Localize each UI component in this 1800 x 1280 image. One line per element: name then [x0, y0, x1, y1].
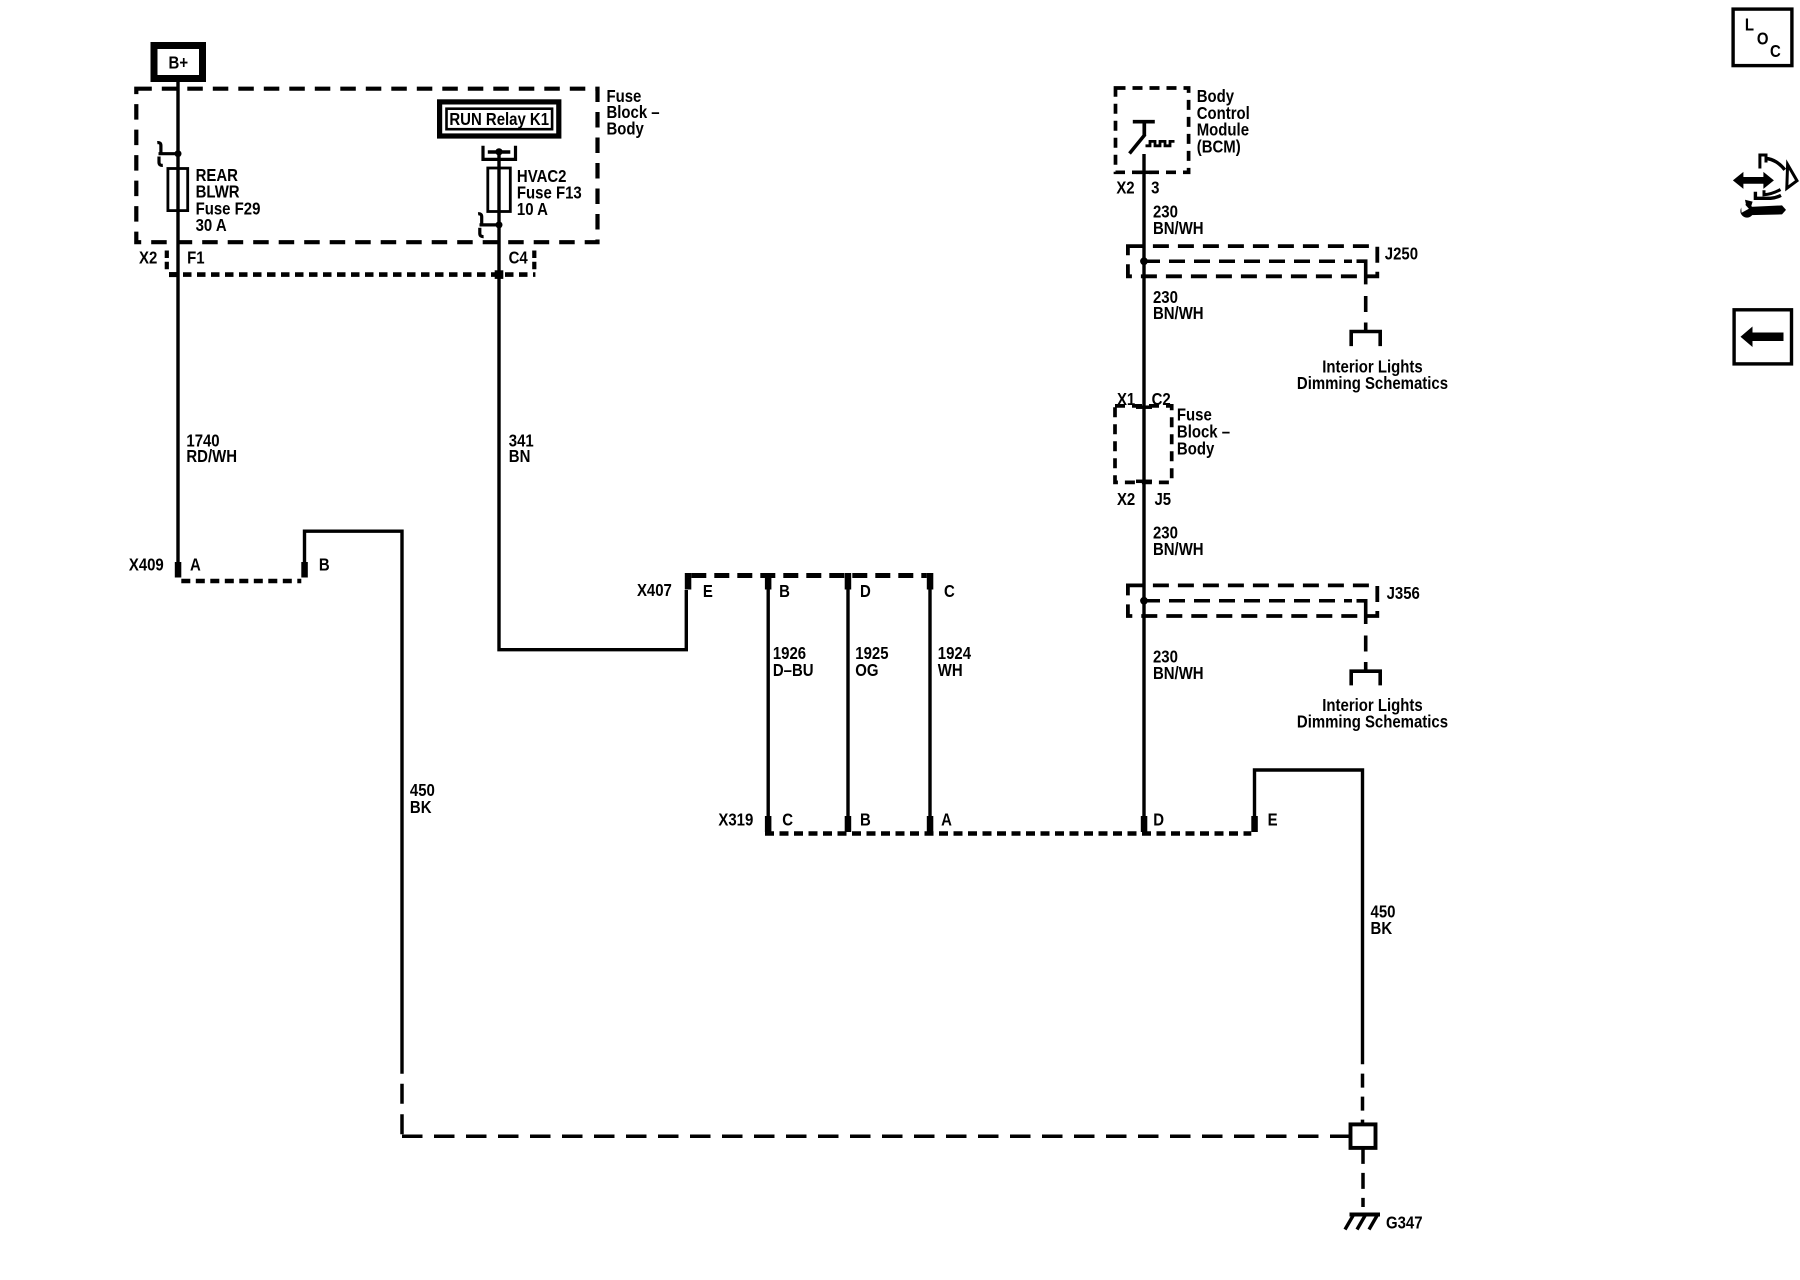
fuse block body small label	[1177, 405, 1230, 458]
junction square at C4 crossing	[495, 270, 504, 279]
svg-text:J356: J356	[1387, 584, 1420, 603]
X319 connector row	[718, 810, 1277, 833]
svg-text:D: D	[1153, 811, 1164, 830]
wire 341 BN relay to X407 E	[499, 152, 686, 650]
svg-text:B: B	[779, 582, 790, 601]
tick at small box top	[1136, 405, 1152, 409]
fork to interior lights (2)	[1351, 671, 1380, 685]
wire label 230 BN/WH (2)	[1153, 288, 1204, 323]
wire 1924 WH	[928, 590, 931, 817]
J250 junction dot	[1140, 257, 1148, 265]
connector C4 dotted line	[169, 272, 535, 277]
svg-text:J250: J250	[1385, 244, 1418, 263]
Body Control Module dashed box	[1116, 88, 1189, 172]
svg-text:BN/WH: BN/WH	[1153, 219, 1204, 238]
wire label 341 BN	[509, 431, 534, 466]
svg-text:X319: X319	[718, 810, 753, 829]
relay contact symbol	[483, 146, 516, 160]
X1 C2 labels	[1117, 390, 1171, 409]
LOC nav box	[1733, 9, 1792, 66]
tick at small box bottom	[1136, 480, 1152, 484]
J250 inner dashed branch	[1144, 261, 1366, 330]
svg-text:C4: C4	[509, 248, 529, 267]
X2 J5 labels	[1117, 490, 1171, 509]
wire label 1740 RD/WH	[186, 431, 237, 466]
svg-text:A: A	[190, 555, 201, 574]
wire label 450 BK right	[1371, 902, 1396, 938]
svg-text:BN/WH: BN/WH	[1153, 540, 1204, 559]
fuse F13 symbol	[488, 168, 511, 212]
svg-text:C: C	[1770, 42, 1781, 61]
dashed continuation into ground splice box	[1361, 1074, 1365, 1125]
fuse F29 symbol	[168, 169, 188, 211]
wire label 1925 OG	[855, 644, 888, 681]
wire 450 BK right: X319 E up over and down	[1255, 770, 1363, 1064]
svg-text:A: A	[941, 811, 952, 830]
B+ power terminal box	[154, 46, 203, 79]
fork to interior lights (1)	[1351, 332, 1380, 347]
svg-text:D: D	[860, 582, 871, 601]
tick at F1 crossing	[169, 272, 178, 277]
svg-text:30 A: 30 A	[196, 216, 227, 235]
svg-text:X2: X2	[1116, 178, 1134, 197]
svg-text:B: B	[860, 811, 871, 830]
J356 inner dashed branch	[1144, 601, 1366, 670]
ground splice open box	[1351, 1124, 1376, 1148]
X409 connector: A and B terminals with dotted jumper	[129, 555, 330, 581]
svg-text:B: B	[319, 555, 330, 574]
wire label 230 BN/WH (4)	[1153, 647, 1204, 683]
J356 junction dot	[1140, 597, 1148, 605]
svg-text:10 A: 10 A	[517, 200, 548, 219]
svg-text:RD/WH: RD/WH	[186, 447, 237, 466]
X2 F1 labels with separator	[139, 248, 204, 270]
svg-text:BK: BK	[1371, 919, 1393, 938]
svg-text:BN/WH: BN/WH	[1153, 304, 1204, 323]
tick at BCM box bottom	[1136, 171, 1152, 175]
fuse block body dashed box	[136, 89, 597, 243]
wire B+ to X409 A (1740 RD/WH)	[176, 82, 179, 563]
svg-text:X407: X407	[637, 581, 672, 600]
schematic navigation icon (arrows and wrench)	[1733, 155, 1797, 218]
svg-text:Body: Body	[1177, 439, 1215, 458]
svg-text:X2: X2	[139, 248, 157, 267]
svg-text:C: C	[782, 811, 793, 830]
svg-text:WH: WH	[938, 661, 963, 680]
RUN Relay K1 box	[440, 102, 559, 136]
wire 230 BN/WH from BCM to X319 D	[1142, 154, 1145, 816]
svg-text:OG: OG	[855, 661, 878, 680]
svg-text:RUN Relay K1: RUN Relay K1	[449, 110, 549, 129]
wire 450 BK left: X409 B up over and down	[305, 531, 403, 1074]
clip symbol below fuse F13	[478, 214, 502, 237]
interior lights dimming label (2)	[1297, 696, 1448, 732]
ground symbol G347	[1345, 1214, 1380, 1230]
svg-text:O: O	[1757, 30, 1769, 49]
svg-text:BN/WH: BN/WH	[1153, 664, 1204, 683]
wire label 230 BN/WH (3)	[1153, 524, 1204, 560]
wire label 1924 WH	[938, 644, 972, 681]
svg-text:Dimming Schematics: Dimming Schematics	[1297, 713, 1448, 732]
svg-text:X409: X409	[129, 555, 164, 574]
svg-text:L: L	[1745, 15, 1754, 34]
svg-text:J5: J5	[1154, 490, 1171, 509]
svg-text:X2: X2	[1117, 490, 1135, 509]
svg-text:C: C	[944, 582, 955, 601]
C4 label with separator	[509, 248, 535, 272]
X2 3 labels	[1116, 178, 1159, 197]
svg-text:(BCM): (BCM)	[1197, 137, 1241, 156]
back navigation box with left arrow	[1734, 310, 1791, 364]
svg-text:3: 3	[1151, 178, 1159, 197]
dashed stem to ground	[1361, 1148, 1365, 1207]
fuse F13 label	[517, 167, 582, 220]
splice J250 dashed box	[1128, 246, 1377, 276]
svg-text:B+: B+	[169, 53, 189, 72]
wire label 1926 D-BU	[773, 644, 814, 681]
clip symbol at fuse F29	[157, 143, 181, 166]
X407 connector row	[637, 573, 955, 601]
splice J356 dashed box	[1128, 585, 1377, 616]
wire label 450 BK left	[410, 781, 435, 817]
BCM driver symbol	[1130, 122, 1175, 154]
wire label 230 BN/WH (1)	[1153, 202, 1204, 238]
interior lights dimming label (1)	[1297, 358, 1448, 394]
svg-text:G347: G347	[1386, 1213, 1423, 1232]
svg-text:BK: BK	[410, 798, 432, 817]
svg-text:Body: Body	[606, 119, 644, 138]
svg-text:E: E	[703, 582, 713, 601]
svg-text:BN: BN	[509, 447, 531, 466]
svg-text:Dimming Schematics: Dimming Schematics	[1297, 374, 1448, 393]
450 BK dashed continuation to ground splice	[400, 1084, 404, 1137]
wire 1925 OG	[846, 590, 849, 817]
fuse block body label	[606, 87, 659, 139]
wire 1926 D-BU	[767, 590, 770, 817]
svg-text:D–BU: D–BU	[773, 661, 814, 680]
fuse F29 label	[196, 166, 261, 236]
svg-text:F1: F1	[187, 248, 204, 267]
BCM label	[1197, 87, 1250, 157]
fuse block body small dashed box	[1115, 406, 1172, 483]
svg-text:E: E	[1268, 811, 1278, 830]
